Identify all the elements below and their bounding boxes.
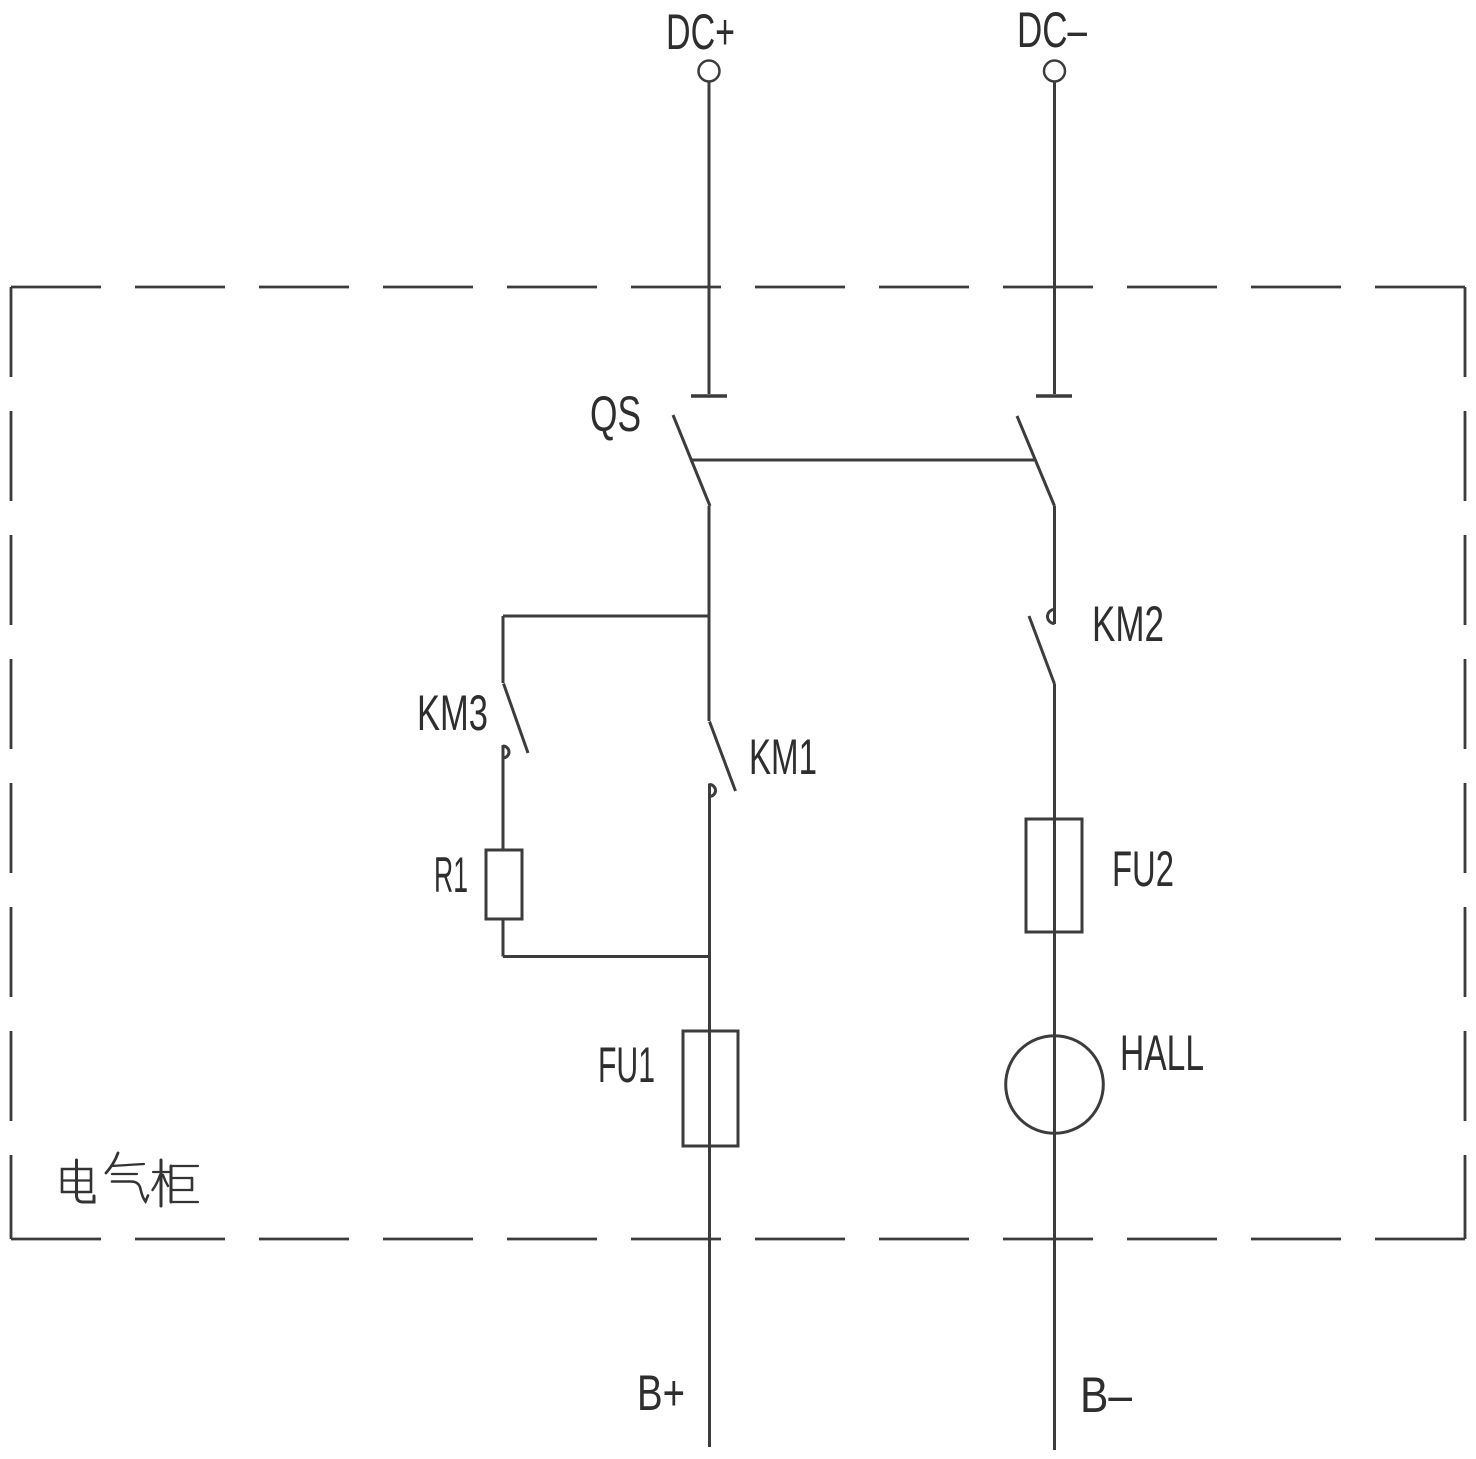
wire KM1 through FU1 down to B+ (708, 784, 711, 1448)
QS left blade (673, 415, 710, 506)
node DC- terminal circle (1044, 61, 1065, 82)
fuse FU2 (1026, 819, 1082, 932)
wire QS to KM2 (1053, 506, 1056, 624)
svg-text:HALL: HALL (1120, 1025, 1204, 1081)
svg-text:B–: B– (1080, 1367, 1132, 1423)
svg-text:KM3: KM3 (417, 685, 488, 741)
glyph 气 (106, 1153, 148, 1202)
QS left fixed contact bar (691, 394, 727, 398)
wire QS linkage rod (692, 459, 1034, 462)
contactor KM3 fixed contact hook (503, 746, 509, 758)
wire branch left vertical (502, 616, 505, 683)
wire DC+ feed down to QS fixed contact (708, 82, 711, 394)
fuse FU1 (683, 1031, 738, 1146)
cabinet dashed border 电气柜 box (11, 287, 1465, 1239)
contactor KM1 fixed contact hook (710, 785, 716, 797)
svg-text:KM1: KM1 (749, 729, 817, 785)
svg-text:DC–: DC– (1017, 2, 1087, 58)
glyph 电 (62, 1160, 94, 1202)
svg-text:FU2: FU2 (1112, 841, 1174, 897)
svg-text:DC+: DC+ (666, 4, 735, 60)
wire branch bottom horizontal (503, 955, 709, 958)
resistor R1 (486, 850, 522, 919)
contactor KM3 blade (504, 684, 529, 754)
wire KM2 through FU2 and HALL down to B- (1053, 684, 1056, 1450)
node DC+ terminal circle (699, 61, 720, 82)
contactor KM2 blade (1029, 616, 1055, 684)
label 电气柜 (hand-drawn glyphs) (62, 1153, 198, 1206)
QS right blade (1017, 416, 1055, 506)
svg-text:R1: R1 (434, 847, 468, 903)
svg-text:KM2: KM2 (1092, 596, 1164, 652)
QS right fixed contact bar (1036, 394, 1072, 398)
contactor KM1 blade (710, 722, 736, 792)
svg-text:FU1: FU1 (598, 1037, 655, 1093)
current sensor HALL circle (1006, 1036, 1104, 1134)
glyph 柜 (153, 1160, 199, 1206)
wire KM3 to R1 (502, 745, 505, 850)
contactor KM2 fixed contact hook (1048, 610, 1055, 624)
svg-text:B+: B+ (637, 1365, 685, 1421)
wire branch top horizontal (503, 615, 709, 618)
wire QS to KM1 (708, 506, 711, 721)
svg-text:QS: QS (590, 386, 641, 442)
wire R1 to bottom branch (502, 919, 505, 957)
wire DC- feed down to QS fixed contact (1053, 82, 1056, 394)
